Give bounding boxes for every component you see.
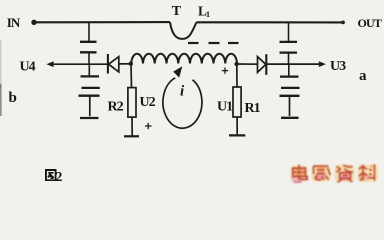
watermark: colored stamp 4 (liao) [358, 164, 379, 182]
resistor R1 body [233, 87, 241, 117]
U4 output arrow [46, 61, 107, 67]
svg-text:T: T [172, 4, 182, 19]
svg-text:U4: U4 [20, 60, 36, 75]
diode D2 triangle [109, 57, 119, 72]
wire: coil left node down to R2 [130, 64, 133, 88]
wire below R1 [236, 117, 238, 135]
scan artifact: left edge line [0, 40, 2, 116]
wire: D2 to coil left node [119, 63, 131, 65]
capacitor C9 (right bottom, plate-stem-plate) [280, 96, 300, 118]
+ polarity mark under U2 [145, 123, 152, 129]
wire below R2 [131, 117, 133, 136]
node: coil left end junction [129, 62, 133, 66]
svg-text:U1: U1 [217, 99, 233, 114]
capacitor C6 (left bottom, plate-stem-plate) [79, 96, 100, 118]
svg-text:2: 2 [55, 170, 62, 185]
transformer core dash 2 [209, 42, 220, 44]
wire: coil right node to diode D1 [237, 63, 258, 65]
node: IN terminal dot [31, 20, 36, 25]
watermark: colored stamp 2 (gan) [312, 165, 331, 182]
watermark: colored stamp 3 (zi) [335, 165, 355, 183]
wire: coil right node down to R1 [236, 64, 238, 87]
inductor: transformer secondary coil [131, 54, 237, 64]
capacitor C5 (left, below U4 rail) [81, 64, 100, 88]
svg-text:OUT: OUT [358, 16, 382, 30]
U3 output arrow [266, 61, 326, 67]
wire: top rail left segment [37, 21, 171, 23]
svg-text:U2: U2 [140, 95, 156, 110]
svg-text:IN: IN [7, 15, 21, 30]
svg-text:1: 1 [206, 10, 210, 19]
diode D1 cathode bar [265, 54, 267, 75]
current loop arrow (circulating current i) [163, 66, 202, 128]
transformer core dash 3 [228, 42, 239, 44]
node: OUT terminal dot [341, 21, 345, 25]
figure label: character tu (drawn) [46, 170, 56, 180]
capacitor C4 (left, between top rail and U4 rail) [80, 22, 97, 64]
svg-text:b: b [9, 90, 17, 106]
transformer T primary winding dip [170, 22, 197, 39]
transformer core dash 1 [188, 42, 199, 44]
node: coil right end junction [234, 62, 238, 66]
watermark: colored stamp 1 (dian) [291, 165, 308, 183]
+ polarity mark at coil right end [222, 67, 228, 73]
resistor R2 body [128, 88, 136, 118]
svg-text:U3: U3 [330, 59, 346, 74]
svg-text:R2: R2 [108, 99, 124, 114]
svg-text:a: a [359, 68, 367, 84]
paper background [0, 0, 384, 186]
terminal bar under R1 [229, 134, 245, 136]
capacitor C8 (right, below U3 rail) [280, 64, 300, 88]
diode D1 triangle (pointing right) [258, 57, 266, 73]
capacitor C7 (right, between top rail and U3 rail) [280, 22, 298, 64]
terminal bar under R2 [124, 135, 139, 137]
wire: top rail right segment [197, 21, 343, 23]
diode D2 (cathode bar, pointing left) [107, 54, 109, 74]
svg-text:R1: R1 [245, 101, 261, 116]
